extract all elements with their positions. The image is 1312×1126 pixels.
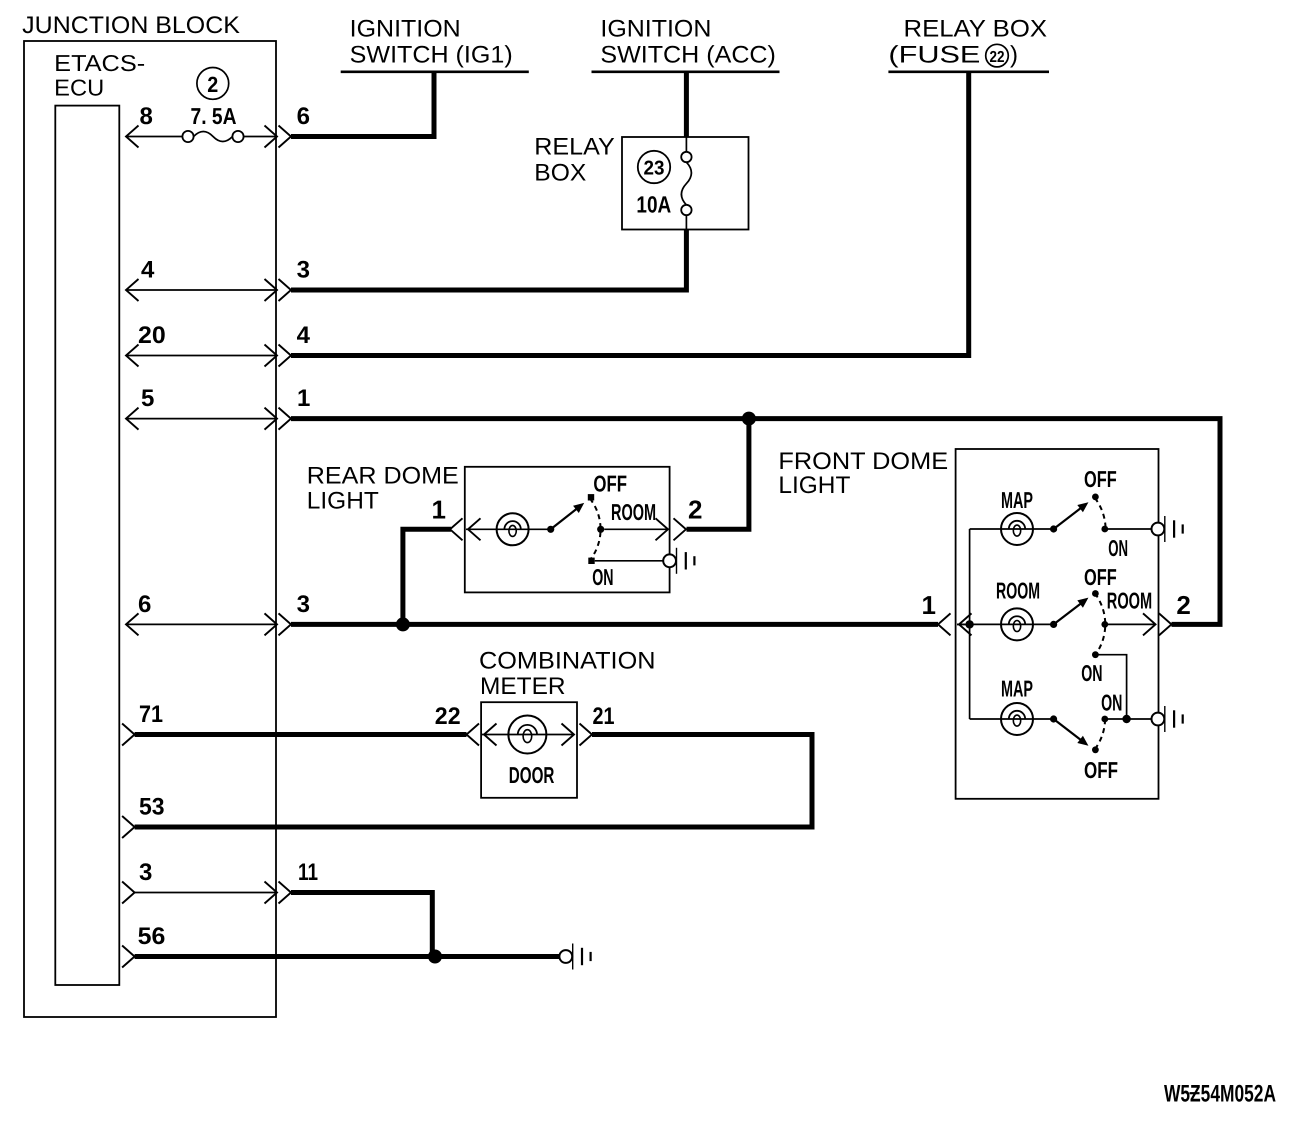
svg-text:ROOM: ROOM — [996, 578, 1040, 604]
svg-text:SWITCH (ACC): SWITCH (ACC) — [600, 41, 776, 68]
svg-text:1: 1 — [432, 495, 446, 525]
svg-text:ON: ON — [1101, 690, 1122, 716]
svg-text:22: 22 — [990, 49, 1005, 66]
svg-text:ON: ON — [592, 564, 613, 590]
svg-text:DOOR: DOOR — [509, 762, 555, 788]
svg-text:1: 1 — [297, 385, 310, 412]
svg-text:OFF: OFF — [1084, 564, 1117, 590]
svg-text:JUNCTION BLOCK: JUNCTION BLOCK — [22, 12, 240, 39]
svg-text:FRONT DOME: FRONT DOME — [778, 448, 948, 475]
svg-text:6: 6 — [138, 591, 151, 618]
svg-text:11: 11 — [298, 859, 318, 886]
svg-text:COMBINATION: COMBINATION — [479, 647, 656, 674]
svg-text:22: 22 — [435, 703, 461, 730]
svg-text:ON: ON — [1108, 535, 1128, 561]
svg-text:1: 1 — [922, 590, 936, 620]
svg-text:LIGHT: LIGHT — [307, 488, 379, 515]
svg-text:MAP: MAP — [1001, 487, 1033, 513]
svg-text:IGNITION: IGNITION — [350, 16, 461, 43]
svg-text:7. 5A: 7. 5A — [191, 103, 237, 129]
svg-text:REAR DOME: REAR DOME — [307, 463, 459, 490]
svg-text:SWITCH (IG1): SWITCH (IG1) — [350, 41, 513, 68]
svg-text:53: 53 — [139, 794, 165, 821]
svg-text:10A: 10A — [636, 192, 671, 218]
svg-text:3: 3 — [297, 257, 310, 284]
svg-text:23: 23 — [644, 158, 665, 180]
svg-text:OFF: OFF — [593, 470, 627, 496]
svg-text:56: 56 — [138, 923, 166, 950]
svg-text:ROOM: ROOM — [1107, 588, 1152, 614]
svg-text:3: 3 — [297, 591, 310, 618]
svg-text:LIGHT: LIGHT — [778, 472, 850, 499]
svg-text:IGNITION: IGNITION — [600, 16, 711, 43]
svg-text:ETACS-: ETACS- — [54, 50, 145, 76]
svg-text:(FUSE: (FUSE — [888, 41, 980, 68]
svg-text:8: 8 — [140, 103, 153, 130]
svg-text:RELAY: RELAY — [534, 134, 614, 161]
svg-text:ROOM: ROOM — [611, 499, 656, 525]
svg-text:ON: ON — [1081, 660, 1102, 686]
svg-text:2: 2 — [688, 495, 702, 525]
svg-text:RELAY BOX: RELAY BOX — [904, 16, 1048, 43]
svg-text:4: 4 — [297, 322, 311, 349]
svg-text:20: 20 — [138, 322, 166, 349]
svg-text:4: 4 — [141, 257, 155, 284]
svg-text:71: 71 — [139, 701, 163, 728]
svg-text:6: 6 — [297, 103, 310, 130]
svg-text:21: 21 — [593, 703, 615, 730]
svg-text:): ) — [1010, 41, 1018, 68]
svg-text:ECU: ECU — [54, 75, 104, 101]
svg-text:2: 2 — [207, 72, 218, 97]
svg-text:OFF: OFF — [1084, 466, 1117, 492]
svg-text:2: 2 — [1176, 590, 1190, 620]
svg-text:W5Z54M052A: W5Z54M052A — [1164, 1081, 1276, 1108]
svg-text:OFF: OFF — [1084, 757, 1118, 783]
svg-text:5: 5 — [141, 385, 154, 412]
svg-text:METER: METER — [480, 673, 566, 700]
svg-text:BOX: BOX — [534, 160, 586, 187]
svg-text:3: 3 — [139, 859, 152, 886]
svg-text:MAP: MAP — [1001, 676, 1033, 702]
